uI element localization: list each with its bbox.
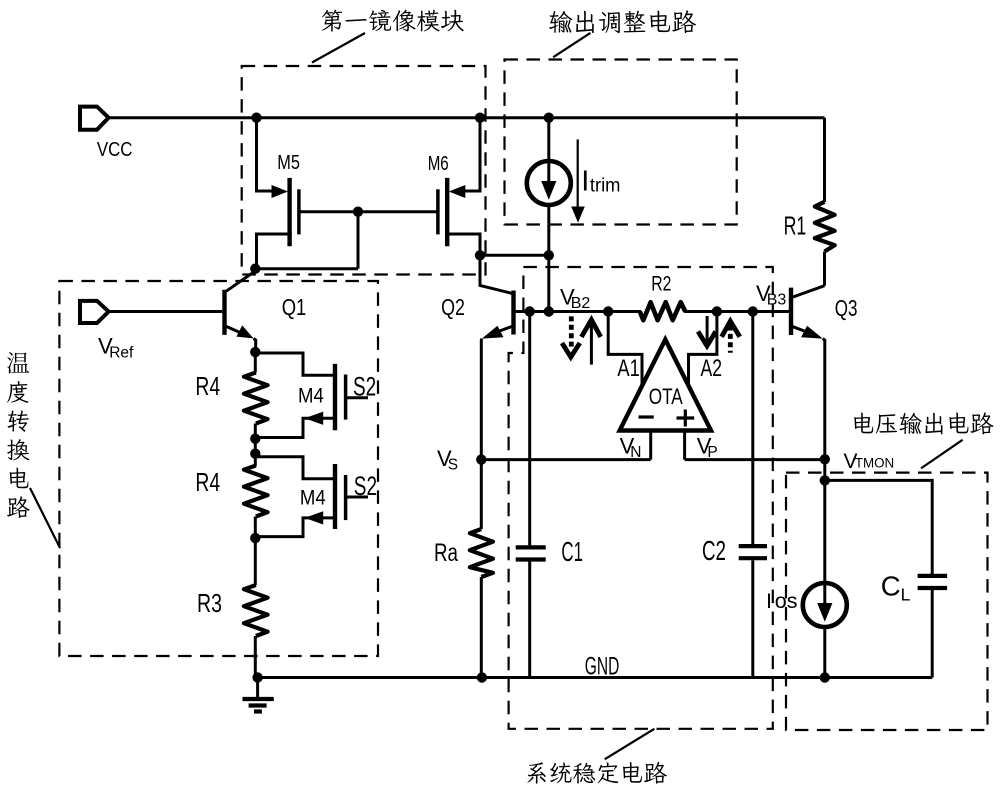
transistor M6 [438,118,549,256]
VRef input flag [80,301,109,323]
dashed box first mirror module [242,66,486,275]
resistor R4 lower [244,466,268,586]
node gate tie [353,207,363,217]
current source Itrim [527,118,571,312]
arrow A1 solid up [581,320,600,365]
resistor R4 upper [244,352,268,466]
svg-text:A1: A1 [617,355,639,382]
svg-text:Ios: Ios [766,589,798,613]
label voltage-output-circuit (电压输出电路) [854,412,993,434]
op-amp OTA triangle [620,340,711,431]
dashed box system stabilization circuit [509,267,773,729]
wire VS line [481,458,650,461]
svg-text:S2: S2 [353,372,376,402]
svg-text:M6: M6 [428,152,449,175]
svg-text:C2: C2 [702,535,726,566]
node VCC-M5 [251,113,261,123]
label temp-conversion-circuit (温度转换电路) vertical [7,352,30,518]
svg-text:Q1: Q1 [282,294,307,320]
svg-text:M5: M5 [277,151,300,174]
wire S2 gate stub upper [346,396,368,399]
node M4 lower source [250,533,260,543]
node VCC-Itrim [544,113,554,123]
node C1 tap [525,306,535,316]
node Itrim tap [544,306,554,316]
transistor Q2 [480,255,514,459]
node R4 junction lower [250,449,260,459]
transistor Q3 [791,286,825,460]
node VTMON [820,454,830,464]
wire A1 input [608,312,642,385]
svg-text:GND: GND [585,653,620,681]
arrow Itrim annotation [571,139,585,222]
svg-text:A2: A2 [701,355,723,382]
svg-text:OTA: OTA [649,384,683,409]
capacitor CL [918,576,948,678]
svg-text:R3: R3 [197,588,222,618]
node R4 junction upper [250,434,260,444]
node GND Ra [477,672,487,682]
wire VCC rail [109,116,825,119]
svg-text:S2: S2 [354,471,377,501]
transistor M5 [257,118,299,269]
label output-adjust-circuit (输出调整电路) [549,10,696,33]
pointer line to temp conversion box [30,488,60,548]
node Itrim bottom [544,250,554,260]
dashed box output adjust circuit [505,60,737,225]
svg-text:M4: M4 [298,383,324,407]
svg-text:M4: M4 [300,486,326,510]
transistor Q1 [225,271,256,352]
arrow A2 solid down [698,316,716,346]
svg-text:R2: R2 [651,272,671,295]
wire GND rail [258,676,933,679]
label first-mirror-module (第一镜像模块) [321,10,463,32]
node A1 tap [603,306,613,316]
svg-text:Q3: Q3 [835,295,858,321]
wire VP line [685,458,825,461]
svg-text:R1: R1 [784,211,807,241]
wire VTMON to CL [825,459,932,574]
node VCC-M6 [475,113,485,123]
svg-text:R4: R4 [195,467,220,497]
svg-text:C1: C1 [561,536,583,567]
node GND left [252,672,262,682]
wire M5-M6 gate tie [257,212,438,269]
VCC input flag [80,107,109,130]
wire S2 gate stub lower [346,496,368,499]
pointer line to system stabilization box [605,729,655,759]
arrow A2 dashed up [722,321,740,353]
node M5 drain / Q1 collector [250,264,260,274]
svg-text:VCC: VCC [97,138,133,161]
transistor M4 upper [255,353,345,438]
transistor M4 lower [255,457,345,537]
svg-text:Ra: Ra [434,539,458,567]
ground symbol [243,678,274,712]
wire Q1 base [109,310,223,313]
svg-text:Q2: Q2 [441,294,465,320]
dashed box voltage output circuit [786,473,988,730]
label system-stabilization-circuit (系统稳定电路) [527,762,667,784]
pointer line to output adjust box [553,33,590,57]
node VB3 [748,306,758,316]
resistor R2 [640,302,686,320]
svg-text:R4: R4 [195,371,220,401]
wire VP stub [683,431,686,460]
capacitor C1 [516,312,546,678]
node M6 drain [475,250,485,260]
dashed box temperature conversion circuit [59,281,378,656]
wire VB2 bus [516,310,790,313]
wire VN stub [649,431,652,460]
wire A2 input [689,312,717,385]
resistor R3 [244,585,268,678]
capacitor C2 [739,312,767,678]
node GND Ios [820,672,830,682]
current source Ios [803,480,847,677]
node VS [476,454,486,464]
node CL tap [820,475,830,485]
resistor Ra [470,460,493,678]
node A2 tap [712,306,722,316]
pointer line to first mirror box [312,33,365,63]
node Q1 emitter [250,347,260,357]
arrow A1 dashed down [562,316,580,357]
resistor R1 [815,118,835,286]
pointer line to voltage output box [921,440,963,469]
